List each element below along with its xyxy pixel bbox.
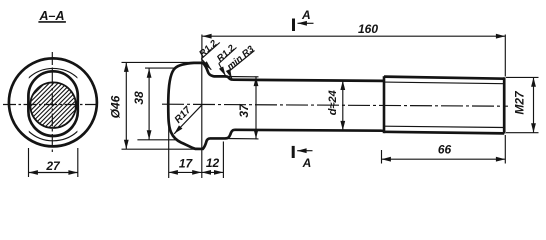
bolt centerline: [162, 104, 508, 106]
svg-text:27: 27: [45, 159, 61, 173]
extension for 66 right below bolt end: [504, 135, 506, 164]
bolt end line: [503, 77, 506, 133]
shank top line: [233, 80, 384, 81]
section arrow bottom: [297, 150, 312, 152]
ext lines 38: [145, 67, 176, 69]
svg-text:A: A: [302, 156, 312, 170]
dimension line 160: [202, 35, 505, 37]
svg-text:12: 12: [206, 156, 220, 170]
neck bottom step to shank: [226, 130, 235, 139]
extension for 66 left: [381, 150, 383, 164]
svg-text:A–A: A–A: [38, 9, 64, 23]
underline R1.2 first: [201, 43, 220, 59]
svg-text:17: 17: [179, 156, 194, 170]
dimension line 37: [255, 77, 257, 139]
underline R1.2 second: [219, 48, 237, 64]
R17 text: [173, 105, 194, 126]
text M27: [513, 90, 527, 115]
thread root bottom thin: [384, 126, 504, 127]
svg-text:66: 66: [438, 143, 452, 157]
thread root top thin: [384, 82, 504, 84]
oval neck section (stadium 27 wide): [28, 71, 77, 136]
dimension line 17: [169, 171, 202, 173]
label R1.2 second: [215, 42, 238, 64]
label R1.2 first: [197, 38, 220, 60]
head outer circle (Ø46) section view: [9, 58, 97, 146]
hatch lines: [0, 76, 109, 132]
horizontal centerline of section: [3, 104, 101, 106]
vertical centerline of section: [51, 52, 53, 155]
text 17: [179, 156, 194, 170]
extension lines for 27: [28, 148, 30, 177]
underline min R3: [229, 51, 255, 72]
text Ø46: [109, 95, 123, 118]
extension for 160 right above bolt end: [504, 35, 506, 77]
text 160: [358, 22, 378, 36]
section plane mark top: [292, 19, 295, 32]
text 12: [206, 156, 220, 170]
extension line shared at head max plane: [201, 63, 203, 178]
svg-text:160: 160: [358, 22, 378, 36]
svg-text:Ø46: Ø46: [109, 95, 123, 118]
svg-text:M27: M27: [513, 90, 527, 115]
svg-text:38: 38: [132, 91, 146, 105]
letter A top: [301, 8, 311, 22]
label min R3: [225, 43, 257, 72]
dimension line M27: [533, 77, 535, 132]
dimension line 27: [29, 172, 78, 174]
extension for 160 left at crown: [201, 35, 203, 64]
thread crest top: [384, 77, 504, 79]
extension line 12 right (neck end): [222, 142, 224, 179]
dimension line 12: [202, 171, 224, 173]
dimension line 38: [148, 68, 150, 139]
bolt head outline side view: [168, 63, 226, 149]
text 38: [132, 91, 146, 105]
leader R1.2 second: [219, 64, 226, 76]
thread start line: [383, 76, 386, 133]
M27 extension lines: [506, 76, 539, 78]
section plane mark bottom: [292, 146, 295, 158]
dimension line d24: [342, 81, 344, 131]
shank circle d24 hatched: [30, 82, 76, 128]
thread crest bottom: [384, 132, 504, 134]
shank bottom line: [235, 128, 385, 132]
extension line 17 left (head leftmost): [168, 126, 170, 178]
leader R1.2 first: [201, 59, 211, 70]
ext lines Ø46: [122, 61, 203, 63]
text 37: [237, 103, 251, 118]
text d24: [327, 90, 339, 115]
svg-text:d≈24: d≈24: [327, 90, 339, 115]
neck top step to shank: [226, 76, 234, 79]
neck ledge thin extensions for 37: [226, 76, 259, 78]
letter A bottom: [302, 156, 312, 170]
svg-text:A: A: [301, 8, 311, 22]
thin arcs of Ø38 circle: [17, 68, 89, 140]
svg-text:R17: R17: [173, 105, 194, 126]
dim text 27: [45, 159, 61, 173]
section title A-A: [38, 9, 64, 23]
text 66: [438, 143, 452, 157]
dimension line Ø46: [125, 63, 127, 150]
section arrow top: [298, 22, 314, 24]
underline of A-A: [38, 21, 66, 23]
svg-text:37: 37: [237, 103, 251, 118]
R17 leader: [174, 105, 202, 134]
dimension line 66: [382, 158, 506, 160]
leader min R3: [229, 72, 232, 79]
